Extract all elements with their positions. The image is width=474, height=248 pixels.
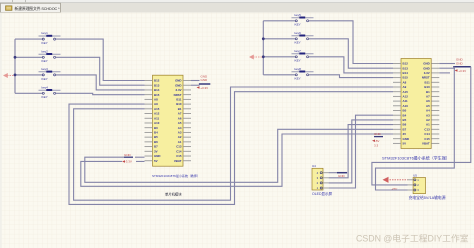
wire key5 to U2 pin1 [309, 21, 394, 64]
pushbutton switch key2 [42, 56, 44, 58]
svg-text:C14: C14 [176, 149, 182, 153]
svg-text:B7: B7 [403, 127, 407, 131]
U4 pin 2 [320, 182, 322, 184]
U1 pins left side [145, 80, 153, 82]
svg-text:B0: B0 [154, 126, 158, 130]
wire bus to key8 [263, 74, 295, 76]
toolbar separators [12, 0, 13, 2]
U5 pin 3 [414, 189, 416, 191]
svg-text:+5V: +5V [392, 187, 399, 191]
U4 pin 1 [320, 187, 322, 189]
svg-text:U5: U5 [413, 173, 417, 177]
svg-text:B7: B7 [154, 145, 158, 149]
wire loop U1-pin6 around bottom to U2 pin7 [69, 92, 393, 205]
svg-text:GND: GND [423, 62, 429, 66]
svg-text:GND: GND [124, 153, 132, 157]
wire bus to key7 [263, 56, 295, 58]
svg-text:KEY: KEY [42, 95, 48, 99]
U5 pin 1 [414, 179, 416, 181]
svg-text:3.3V: 3.3V [176, 88, 182, 92]
svg-text:key8: key8 [295, 67, 302, 71]
svg-text:+3.3V: +3.3V [200, 86, 208, 90]
wire key4 to U1 pin4 [56, 93, 145, 94]
svg-text:KEY: KEY [295, 41, 301, 45]
wire bus to key1 [15, 38, 42, 40]
pushbutton switch key8 [295, 74, 297, 76]
svg-text:A1: A1 [426, 123, 430, 127]
GND bar symbol [199, 83, 210, 85]
svg-text:B0: B0 [403, 109, 407, 113]
svg-text:U4: U4 [312, 164, 316, 168]
svg-text:A15: A15 [154, 107, 160, 111]
wire key6 to U2 pin2 [309, 39, 394, 68]
svg-text:B11: B11 [176, 97, 182, 101]
wire loop U1-pin7 around bottom to U2 pin6 [74, 87, 393, 200]
svg-text:B4: B4 [403, 113, 407, 117]
svg-text:A4: A4 [178, 126, 182, 130]
svg-text:KEY: KEY [295, 23, 301, 27]
svg-text:5V: 5V [403, 142, 407, 146]
wire U4 pin3 to U2 pin14 [329, 125, 393, 178]
port arrow left (off-sheet) [3, 73, 8, 78]
svg-text:GND: GND [456, 61, 464, 65]
wire power rail to U5 pin3 [376, 67, 455, 190]
svg-text:B4: B4 [154, 131, 158, 135]
active document tab [1, 3, 61, 12]
pushbutton switch key7 [295, 56, 297, 58]
wire: right key bus vertical [262, 21, 264, 75]
svg-text:A15: A15 [403, 90, 409, 94]
wire: left key bus vertical [14, 39, 16, 93]
svg-text:KEY: KEY [42, 59, 48, 63]
svg-text:KEY: KEY [42, 77, 48, 81]
svg-text:B13: B13 [403, 66, 409, 70]
svg-text:A12: A12 [154, 112, 160, 116]
svg-text:A2: A2 [178, 135, 182, 139]
svg-text:5V: 5V [154, 159, 158, 163]
svg-text:B1: B1 [178, 107, 182, 111]
svg-text:B10: B10 [424, 85, 430, 89]
svg-text:key3: key3 [42, 67, 49, 71]
svg-text:C15: C15 [424, 137, 430, 141]
pushbutton switch key5 [295, 20, 297, 22]
svg-text:GND: GND [201, 78, 209, 82]
U2 top-right power wires [439, 63, 455, 65]
junction right bus / key6 [262, 37, 265, 40]
svg-text:A5: A5 [426, 104, 430, 108]
svg-text:B15: B15 [403, 76, 409, 80]
svg-text:OLED显示屏: OLED显示屏 [312, 192, 333, 196]
wire bus to key5 [263, 20, 295, 22]
wire U4 pin2 to U2 pin13 [329, 120, 393, 183]
wire U4 pin1 to U2 pin12 [329, 115, 393, 188]
connector U5 power jack body [413, 178, 425, 194]
svg-text:A10: A10 [154, 121, 160, 125]
svg-text:GND: GND [374, 132, 382, 136]
svg-text:GND: GND [175, 79, 181, 83]
svg-text:B14: B14 [154, 88, 160, 92]
toolbar strip [0, 0, 474, 3]
svg-text:A8: A8 [154, 97, 158, 101]
MCU U2 STM32F103C8T6 (student) body [401, 59, 431, 149]
svg-text:B14: B14 [403, 71, 409, 75]
svg-text:A2: A2 [426, 118, 430, 122]
U4 pin 3 [320, 177, 322, 179]
svg-text:B5: B5 [403, 118, 407, 122]
svg-text:A7: A7 [426, 95, 430, 99]
wire U1 pin18 stub [136, 160, 145, 162]
junction left bus / key3 [14, 74, 17, 77]
svg-text:B10: B10 [176, 102, 182, 106]
pushbutton switch key4 [42, 92, 44, 94]
svg-text:key5: key5 [295, 13, 302, 17]
svg-text:C15: C15 [176, 154, 182, 158]
wire key3 to U1 pin3 [56, 75, 145, 90]
svg-text:+3.3V: +3.3V [458, 69, 466, 73]
svg-text:GND: GND [154, 154, 160, 158]
wire key1 to U1 pin1 [56, 39, 145, 80]
svg-text:A4: A4 [426, 109, 430, 113]
svg-text:A3: A3 [178, 131, 182, 135]
junction right bus / key7 [262, 55, 265, 58]
wire power rail to U5 pin2 [372, 67, 471, 185]
pushbutton switch key3 [42, 74, 44, 76]
U2 GND bar symbol [453, 66, 471, 68]
left panel edge strip [0, 13, 2, 248]
svg-text:GND: GND [403, 137, 409, 141]
connector U4 OLED body [312, 168, 323, 190]
wire bus to key4 [15, 92, 42, 94]
+3.3V label with arrow [197, 86, 200, 88]
wire U4 pin4 to GND bar [329, 172, 339, 174]
svg-text:单片机模块: 单片机模块 [165, 191, 182, 196]
wire bus to key2 [15, 56, 42, 58]
wire bus to key3 [15, 74, 42, 76]
svg-text:A1: A1 [178, 140, 182, 144]
wire key7 to U2 pin3 [309, 57, 394, 73]
svg-text:KEY: KEY [42, 41, 48, 45]
svg-text:3V: 3V [403, 132, 407, 136]
svg-text:key1: key1 [42, 31, 49, 35]
svg-text:C13: C13 [424, 127, 430, 131]
svg-text:key6: key6 [295, 31, 302, 35]
svg-text:key7: key7 [295, 49, 302, 53]
svg-text:GND: GND [423, 66, 429, 70]
svg-text:VBAT: VBAT [422, 142, 430, 146]
U1 pins right side [183, 80, 191, 82]
svg-text:STM32F103C8T6最小系统（教师）: STM32F103C8T6最小系统（教师） [152, 173, 200, 178]
U1 top-right power: wires [191, 80, 200, 82]
U4 pin 4 [320, 172, 322, 174]
port arrow right (off-sheet) [249, 55, 254, 60]
svg-text:A6: A6 [426, 99, 430, 103]
svg-text:B6: B6 [403, 123, 407, 127]
wire key8 to U2 pin4 [309, 75, 394, 78]
svg-text:C14: C14 [424, 132, 430, 136]
wire bus to key6 [263, 38, 295, 40]
svg-text:GND: GND [175, 83, 181, 87]
pushbutton switch key1 [42, 38, 44, 40]
svg-text:A11: A11 [403, 99, 409, 103]
svg-text:A8: A8 [403, 80, 407, 84]
svg-text:key4: key4 [42, 85, 49, 89]
svg-text:B13: B13 [154, 83, 160, 87]
svg-text:NRST: NRST [174, 93, 182, 97]
tab bar background [0, 3, 474, 13]
wire loop U1 +3.3V around to U2 pin16 [81, 134, 393, 186]
svg-text:3.3V: 3.3V [424, 71, 430, 75]
wire loop U1 GND around to U2 pin15 [85, 129, 393, 182]
svg-text:B6: B6 [154, 140, 158, 144]
svg-text:A9: A9 [154, 102, 158, 106]
U5 pin 2 [414, 184, 416, 186]
svg-text:key2: key2 [42, 49, 49, 53]
svg-text:A5: A5 [178, 121, 182, 125]
U2 pins left side [393, 63, 401, 65]
wire U1 pin17 stub to GND symbol [135, 156, 145, 158]
svg-text:KEY: KEY [295, 59, 301, 63]
svg-text:VBAT: VBAT [174, 159, 182, 163]
svg-text:充电宝给5V/1A输电源: 充电宝给5V/1A输电源 [409, 195, 446, 200]
svg-text:NRST: NRST [422, 76, 430, 80]
svg-text:A6: A6 [178, 116, 182, 120]
svg-text:B12: B12 [154, 79, 160, 83]
svg-text:+3.3V: +3.3V [124, 160, 132, 164]
svg-text:B12: B12 [403, 62, 409, 66]
junction left bus / key2 [14, 56, 17, 59]
U2 pins right side [431, 63, 439, 65]
svg-text:A3: A3 [426, 113, 430, 117]
svg-text:A9: A9 [403, 85, 407, 89]
pushbutton switch key6 [295, 38, 297, 40]
svg-text:B5: B5 [154, 135, 158, 139]
svg-text:STM32F103C8T6最小系统（学生端）: STM32F103C8T6最小系统（学生端） [382, 154, 450, 160]
svg-text:3.3: 3.3 [374, 144, 379, 148]
svg-text:A10: A10 [403, 104, 409, 108]
svg-text:C13: C13 [176, 145, 182, 149]
svg-text:CSDN @电子工程DIY工作室: CSDN @电子工程DIY工作室 [356, 233, 469, 244]
svg-text:B11: B11 [425, 80, 431, 84]
svg-text:KEY: KEY [295, 77, 301, 81]
svg-text:新建原理图文件.SCHDOC *: 新建原理图文件.SCHDOC * [15, 6, 61, 11]
port arrow at U5 pin1 [383, 177, 389, 183]
svg-text:B15: B15 [154, 93, 160, 97]
MCU U1 STM32F103C8T6 (teacher) body [153, 75, 184, 166]
svg-text:A7: A7 [178, 112, 182, 116]
svg-text:3V: 3V [154, 149, 158, 153]
document tab icon [6, 6, 13, 11]
svg-text:A12: A12 [403, 95, 409, 99]
svg-text:A11: A11 [154, 116, 160, 120]
wire key2 to U1 pin2 [56, 57, 145, 85]
svg-text:B1: B1 [426, 90, 430, 94]
